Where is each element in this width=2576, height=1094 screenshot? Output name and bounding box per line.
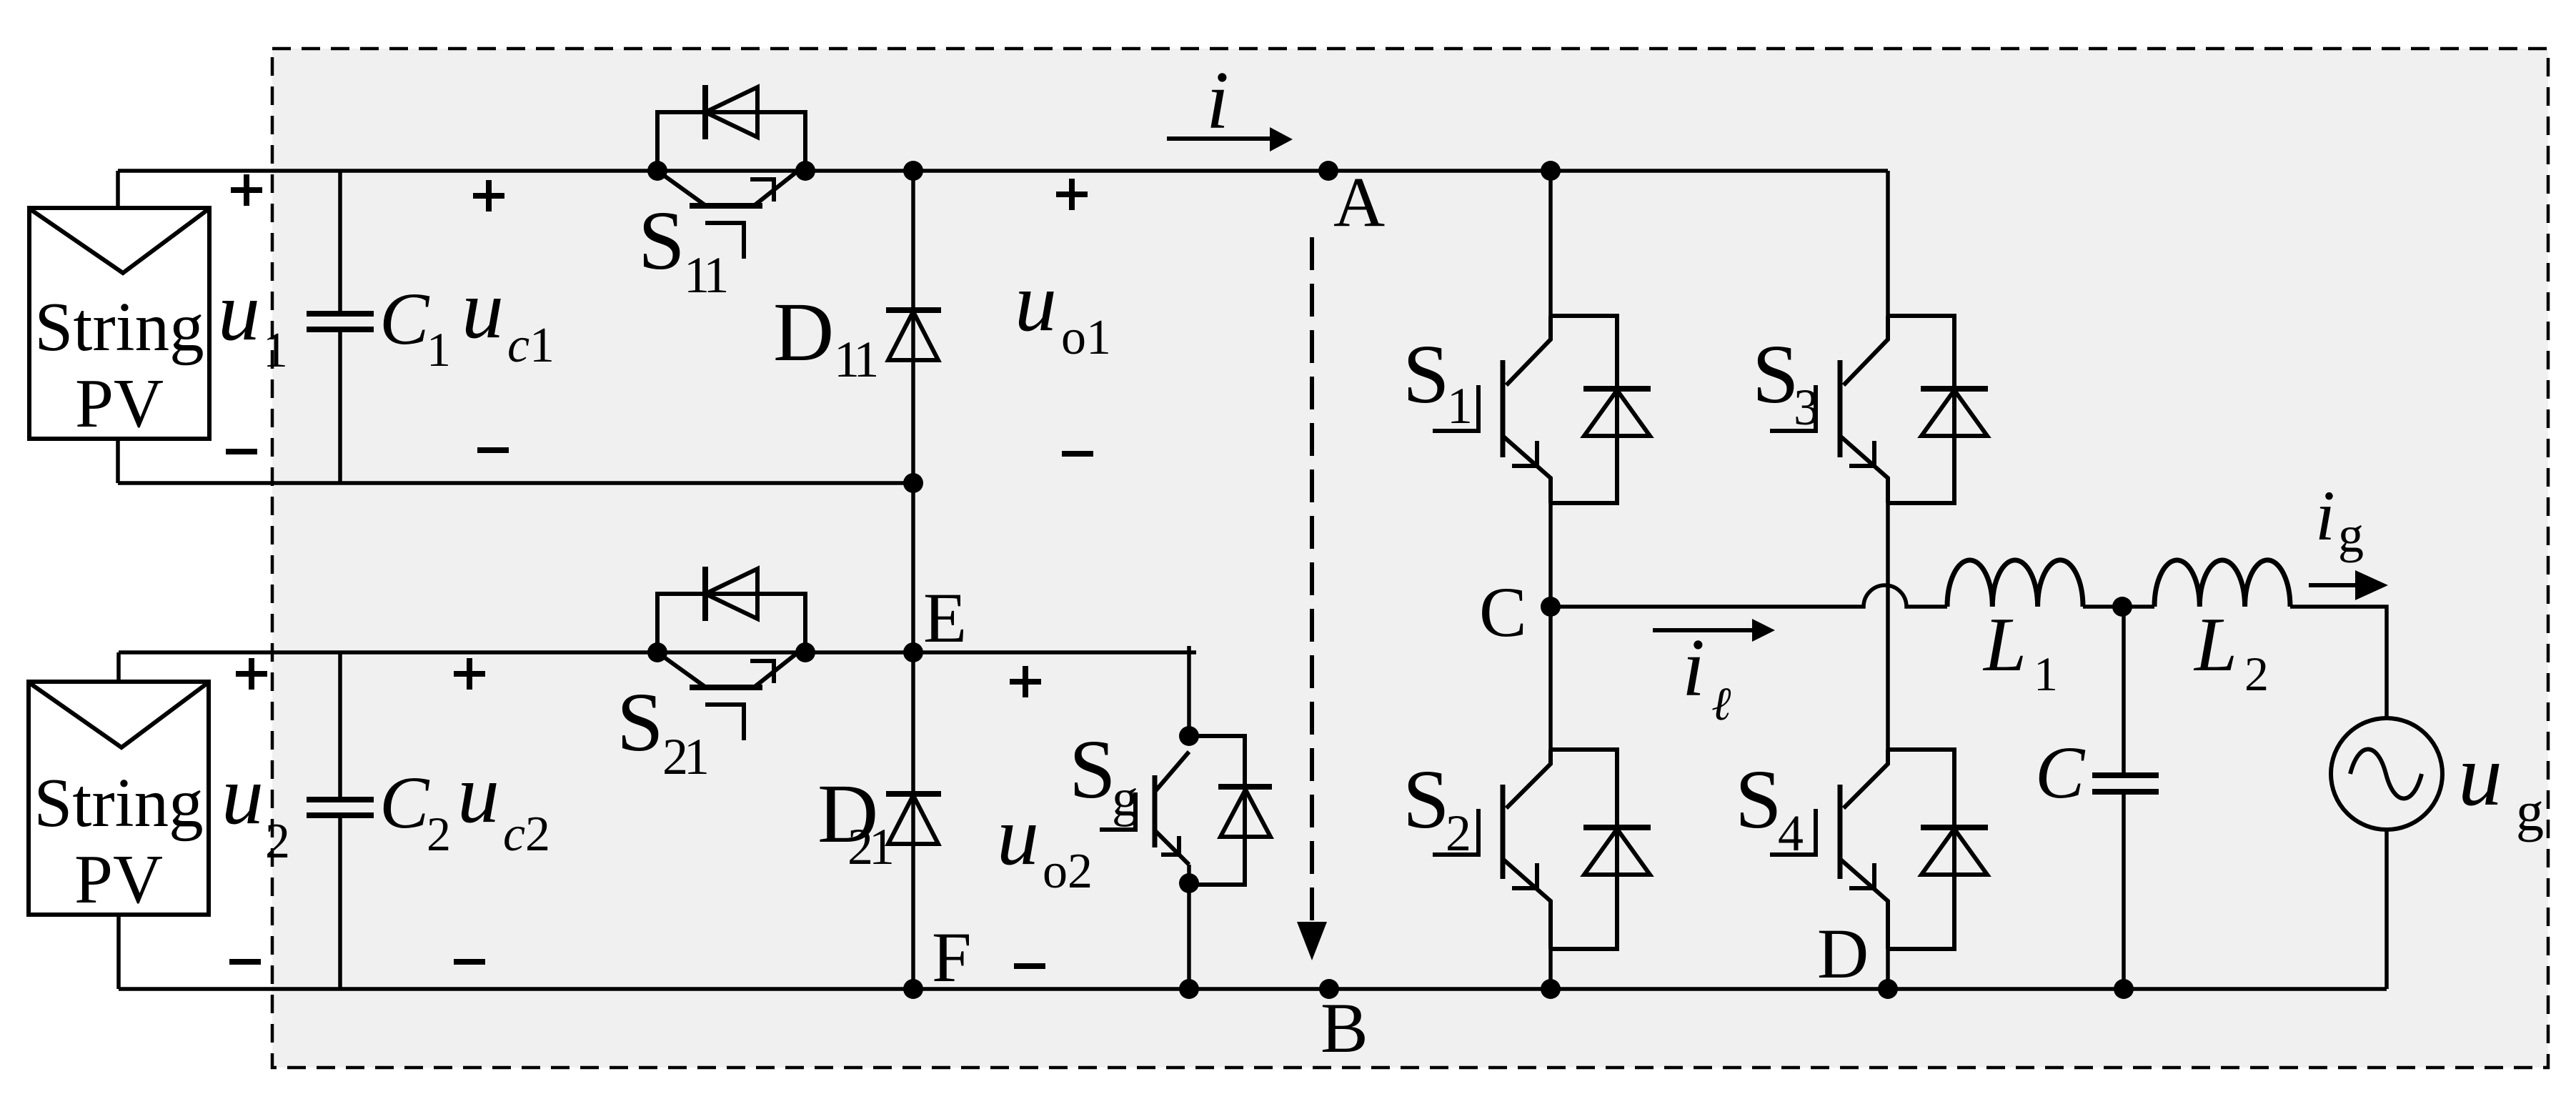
dashed arrow A to B [1297,237,1327,960]
node S21 left [647,642,667,662]
svg-text:2: 2 [265,814,290,869]
wire D11-E-F column [911,171,915,989]
wire PV1 negative lead [116,439,120,483]
svg-text:F: F [932,918,972,997]
node Sg bottom [1179,873,1199,893]
label u2 with polarity [222,658,290,962]
svg-text:S: S [638,194,685,287]
wire top bus [118,169,1888,173]
transistor S1 with antiparallel diode [1403,316,1651,503]
wire C1 column [338,171,342,483]
svg-text:1: 1 [263,323,288,378]
svg-text:1: 1 [1447,377,1473,434]
node filter junction [2112,597,2132,617]
wire S4 bottom leg [1886,949,1890,989]
String PV source 2 [29,682,209,918]
node B [1319,979,1339,999]
transistor Sg with antiparallel diode [1069,722,1272,885]
svg-text:u: u [1015,255,1057,349]
svg-text:21: 21 [847,818,892,875]
wire bottom bus [119,987,2387,991]
inductor L2 [2154,560,2290,701]
svg-text:g: g [1112,769,1138,827]
wire PV2 negative lead [116,915,121,989]
inductor L1 [1947,560,2083,701]
svg-text:1: 1 [2034,647,2058,701]
wire cell2 top rail [119,650,1196,655]
svg-text:u: u [2458,726,2502,824]
svg-text:ℓ: ℓ [1711,678,1731,730]
wire cell1 lower rail [118,481,913,485]
String PV source 1 [29,208,209,442]
label node C [1479,572,1527,652]
svg-text:A: A [1333,162,1385,242]
svg-text:2: 2 [2244,647,2269,701]
svg-text:C: C [2035,732,2086,814]
svg-text:11: 11 [684,247,726,304]
node C [1541,597,1561,617]
transistor S11 with antiparallel diode [638,85,805,304]
node filter C bus junction [2114,979,2134,999]
svg-text:u: u [462,262,504,356]
node S11 right [795,161,815,181]
label node E [923,578,967,657]
svg-text:2: 2 [427,807,451,861]
svg-text:i: i [1682,622,1705,713]
svg-text:S: S [1403,327,1450,421]
node Sg bus junction [1179,979,1199,999]
wire filter C column [2122,607,2126,989]
wire Sg top lead [1187,646,1191,736]
node Sg top [1179,726,1199,746]
svg-text:C: C [379,762,430,844]
node D11 top [903,161,923,181]
svg-text:21: 21 [662,728,707,785]
current arrow i [1167,55,1293,151]
label node B [1321,988,1368,1068]
svg-text:o1: o1 [1061,310,1111,365]
node S11 left [647,161,667,181]
svg-text:E: E [923,578,967,657]
svg-text:String: String [34,289,204,365]
svg-text:C: C [379,278,430,360]
wire C2 column [338,652,342,989]
node F [903,979,923,999]
svg-text:g: g [2338,506,2364,563]
svg-text:3: 3 [1794,379,1819,436]
transistor S21 with antiparallel diode [617,567,805,785]
svg-text:i: i [1206,55,1229,146]
svg-text:u: u [997,789,1039,882]
svg-text:1: 1 [529,318,555,373]
svg-text:i: i [2315,476,2335,555]
label node D [1817,914,1869,993]
wire S3 leg from top bus [1886,171,1890,316]
label uo2 with polarity [997,666,1093,966]
diode D11 [773,285,941,388]
label uc2 with polarity [454,658,550,962]
label uo1 with polarity [1015,179,1111,454]
label node F [932,918,972,997]
svg-text:u: u [218,264,260,358]
node S2 bus junction [1541,979,1561,999]
svg-text:L: L [2193,602,2237,687]
wire grid source bottom lead [2384,830,2389,989]
svg-text:L: L [1982,602,2027,687]
svg-text:c: c [507,318,529,373]
transistor S4 with antiparallel diode [1735,750,1988,949]
svg-text:D: D [773,285,834,379]
wire L2 to grid corner [2290,607,2387,718]
svg-text:11: 11 [834,331,876,388]
capacitor C1 [307,278,451,377]
node D [1878,979,1898,999]
svg-text:PV: PV [75,365,164,442]
wire PV1 positive lead [116,171,120,208]
svg-text:g: g [2516,780,2544,842]
transistor S2 with antiparallel diode [1403,750,1651,949]
wire S2 bottom leg [1548,949,1553,989]
svg-text:C: C [1479,572,1527,652]
svg-text:1: 1 [427,322,451,377]
wire PV2 positive lead [116,652,121,682]
node S21 right [795,642,815,662]
svg-text:2: 2 [525,807,550,862]
svg-text:4: 4 [1778,805,1804,862]
svg-text:S: S [1403,752,1450,846]
svg-text:c: c [503,807,525,862]
transistor S3 with antiparallel diode [1752,316,1988,503]
wire S1 leg from top bus [1548,171,1553,316]
wire S3-S4 mid leg [1886,503,1890,750]
node cell1 lower junction [903,473,923,493]
svg-text:u: u [457,747,499,840]
svg-text:B: B [1321,988,1368,1068]
svg-text:o2: o2 [1043,844,1093,899]
svg-text:S: S [1069,722,1116,816]
svg-text:S: S [1752,327,1799,421]
wire between L1 and L2 [2083,605,2154,609]
svg-text:u: u [222,748,264,842]
label uc1 with polarity [462,180,555,450]
current arrow i_l [1653,619,1775,730]
label node A [1333,162,1385,242]
label u1 with polarity [218,174,288,452]
diode D21 [817,767,941,875]
svg-text:PV: PV [74,841,163,918]
svg-text:S: S [617,675,664,769]
wire Sg bottom lead [1187,865,1191,989]
wire S1-S2 mid leg [1548,503,1553,750]
svg-text:S: S [1735,752,1782,846]
current arrow ig [2309,476,2388,600]
svg-text:2: 2 [1446,805,1471,862]
capacitor C2 [307,762,451,861]
node A [1318,161,1338,181]
node E [903,642,923,662]
node S1 top junction [1541,161,1561,181]
capacitor C (filter) [2035,732,2159,814]
wire C node to filter with hop over S3 leg [1551,585,1947,607]
svg-text:D: D [1817,914,1869,993]
svg-text:String: String [34,765,203,841]
AC grid source ug [2331,718,2544,842]
